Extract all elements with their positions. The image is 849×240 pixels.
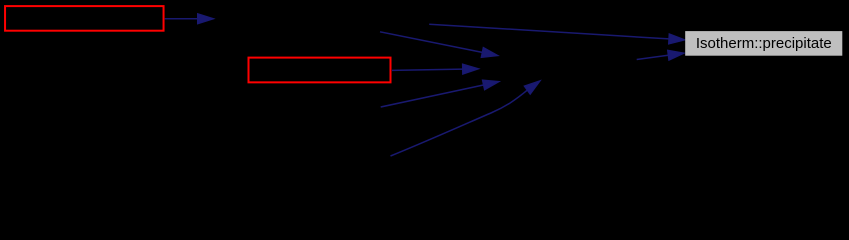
edge F: curved edge from lower hidden node (wire) [391,81,541,157]
edge C: hidden node down-right (wire) [380,32,498,58]
edge B: box2 to hidden node (wire) [392,64,479,74]
edge D: hidden node to Isotherm::precipitate (wire) [429,24,685,44]
svg-text:Isotherm::precipitate: Isotherm::precipitate [696,35,832,52]
node: Isotherm::precipitate (current node, gray) [685,31,842,56]
edge E: hidden node up-right (wire) [381,80,500,107]
node: caller box 1 (red, truncated) [5,6,164,31]
edge G: hidden node to Isotherm::precipitate (wire) [637,50,685,60]
edge A: box1 to hidden node (wire) [165,14,214,24]
node: caller box 2 (red, truncated) [249,58,391,83]
